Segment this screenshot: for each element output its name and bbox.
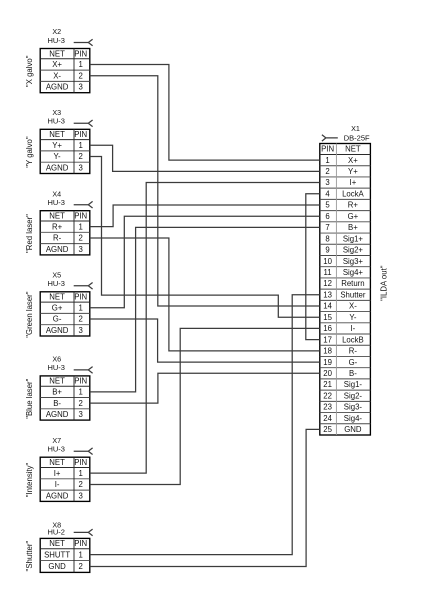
svg-text:19: 19 <box>323 358 332 367</box>
svg-text:B-: B- <box>349 369 357 378</box>
X1 pin 3: net I+ <box>325 178 356 187</box>
net-group label &quot;Blue laser&quot; for X6 <box>25 378 34 418</box>
connector X1 column headers PIN / NET <box>321 145 361 154</box>
svg-text:G+: G+ <box>52 303 63 312</box>
svg-text:PIN: PIN <box>74 130 87 139</box>
connector X8 (HU-2) reference designator <box>52 520 61 529</box>
svg-text:Sig4+: Sig4+ <box>343 268 364 277</box>
svg-text:2: 2 <box>79 315 83 324</box>
connector X7 column headers NET / PIN <box>49 458 87 467</box>
X1 pin 19: net G- <box>323 358 357 367</box>
svg-text:HU-3: HU-3 <box>47 363 65 372</box>
svg-text:16: 16 <box>323 324 332 333</box>
svg-text:HU-3: HU-3 <box>47 117 65 126</box>
svg-text:Shutter: Shutter <box>340 290 366 299</box>
svg-text:1: 1 <box>325 156 329 165</box>
wire net G- : X5 pin 2 to X1 pin 19 <box>90 319 320 362</box>
svg-text:3: 3 <box>325 178 329 187</box>
svg-text:2: 2 <box>79 480 83 489</box>
svg-text:PIN: PIN <box>74 49 87 58</box>
connector X1 type label DB-25F <box>344 134 370 143</box>
svg-text:"ILDA out": "ILDA out" <box>379 265 388 301</box>
svg-text:2: 2 <box>79 152 83 161</box>
svg-text:AGND: AGND <box>46 326 69 335</box>
X1 pin 18: net R- <box>323 347 357 356</box>
svg-text:R+: R+ <box>52 222 63 231</box>
wire net R+ : X4 pin 1 to X1 pin 5 <box>90 205 320 227</box>
wire net G+ : X5 pin 1 to X1 pin 6 <box>90 216 320 308</box>
connector X7 type label HU-3 <box>47 444 65 453</box>
connector X2 table frame <box>40 49 90 93</box>
X1 pin 12: net Return <box>323 279 364 288</box>
wire net GND : X8 pin 2 to X1 pin 25 <box>90 429 320 566</box>
X8 pin 1: net SHUTT <box>44 550 83 559</box>
connector X4 pin-header symbol <box>74 201 93 208</box>
connector X4 column headers NET / PIN <box>49 212 87 221</box>
X4 pin 2: net R- <box>53 234 83 243</box>
X1 pin 6: net G+ <box>325 212 358 221</box>
X1 pin 16: net I- <box>323 324 355 333</box>
svg-text:"Green laser": "Green laser" <box>25 291 34 338</box>
net-group label &quot;Shutter&quot; for X8 <box>25 541 34 572</box>
svg-text:Sig3+: Sig3+ <box>343 257 364 266</box>
connector X8 type label HU-2 <box>47 528 65 537</box>
X1 pin 1: net X+ <box>325 156 358 165</box>
svg-text:Y-: Y- <box>54 152 61 161</box>
net-group label &quot;X galvo&quot; for X2 <box>25 55 34 87</box>
connector X8 column headers NET / PIN <box>49 539 87 548</box>
svg-text:G-: G- <box>53 315 62 324</box>
wire net Lock : X1 pin 4 to X1 pin 17 <box>306 194 320 340</box>
connector X2 (HU-3) reference designator <box>52 27 61 36</box>
X1 pin 21: net Sig1- <box>323 380 362 389</box>
svg-text:17: 17 <box>323 335 332 344</box>
svg-text:LockB: LockB <box>342 335 364 344</box>
X1 pin 23: net Sig3- <box>323 403 362 412</box>
X1 pin 4: net LockA <box>325 189 364 198</box>
svg-text:HU-3: HU-3 <box>47 444 65 453</box>
svg-text:B-: B- <box>53 399 61 408</box>
connector X2 type label HU-3 <box>47 36 65 45</box>
X5 pin 2: net G- <box>53 315 83 324</box>
svg-text:23: 23 <box>323 403 332 412</box>
svg-text:24: 24 <box>323 414 332 423</box>
svg-text:1: 1 <box>79 469 83 478</box>
net-group label &quot;Y galvo&quot; for X3 <box>25 136 34 168</box>
net-group label &quot;Intensity&quot; for X7 <box>25 462 34 497</box>
svg-text:PIN: PIN <box>74 458 87 467</box>
svg-text:GND: GND <box>48 562 66 571</box>
connector X5 (HU-3) reference designator <box>52 270 61 279</box>
connector X1 table frame <box>320 144 371 436</box>
wire net B+ : X6 pin 1 to X1 pin 7 <box>90 227 320 391</box>
svg-text:12: 12 <box>323 279 332 288</box>
svg-text:NET: NET <box>49 539 65 548</box>
X1 pin 22: net Sig2- <box>323 391 362 400</box>
svg-text:SHUTT: SHUTT <box>44 550 70 559</box>
svg-text:2: 2 <box>79 234 83 243</box>
connector X3 pin-header symbol <box>74 120 93 127</box>
svg-text:PIN: PIN <box>74 539 87 548</box>
wire net X- : X2 pin 2 to X1 pin 14 <box>90 76 320 306</box>
connector X1 pin-header symbol <box>322 135 338 141</box>
connector X4 table frame <box>40 211 90 255</box>
svg-text:I-: I- <box>55 480 60 489</box>
svg-text:NET: NET <box>49 212 65 221</box>
svg-text:NET: NET <box>345 145 361 154</box>
svg-text:Sig1+: Sig1+ <box>343 234 364 243</box>
svg-text:"X galvo": "X galvo" <box>25 55 34 87</box>
connector X6 pin-header symbol <box>74 367 93 374</box>
svg-text:Sig1-: Sig1- <box>344 380 363 389</box>
wire net Y- : X3 pin 2 to X1 pin 15 <box>90 157 320 318</box>
X1 pin 9: net Sig2+ <box>325 246 363 255</box>
svg-text:PIN: PIN <box>74 293 87 302</box>
connector X5 type label HU-3 <box>47 279 65 288</box>
net-group label &quot;Green laser&quot; for X5 <box>25 291 34 338</box>
connector X2 pin-header symbol <box>74 39 93 46</box>
svg-text:"Red laser": "Red laser" <box>25 214 34 253</box>
wire net Y+ : X3 pin 1 to X1 pin 2 <box>90 145 320 171</box>
svg-text:Y+: Y+ <box>52 141 62 150</box>
X1 pin 8: net Sig1+ <box>325 234 363 243</box>
svg-text:I+: I+ <box>54 469 61 478</box>
connector X3 type label HU-3 <box>47 117 65 126</box>
svg-text:R+: R+ <box>348 201 359 210</box>
svg-text:3: 3 <box>79 410 83 419</box>
svg-text:2: 2 <box>79 71 83 80</box>
svg-text:NET: NET <box>49 458 65 467</box>
svg-text:1: 1 <box>79 141 83 150</box>
svg-text:1: 1 <box>79 222 83 231</box>
wire net I- : X7 pin 2 to X1 pin 16 <box>90 328 320 484</box>
svg-text:DB-25F: DB-25F <box>344 134 370 143</box>
X2 pin 3: net AGND <box>46 83 83 92</box>
svg-text:GND: GND <box>344 425 362 434</box>
X1 pin 24: net Sig4- <box>323 414 362 423</box>
svg-text:PIN: PIN <box>74 377 87 386</box>
svg-text:11: 11 <box>324 268 332 277</box>
connector X6 column headers NET / PIN <box>49 377 87 386</box>
X1 pin 25: net GND <box>323 425 362 434</box>
svg-text:AGND: AGND <box>46 245 69 254</box>
svg-text:8: 8 <box>325 234 329 243</box>
connector X1 reference designator <box>351 124 360 133</box>
svg-text:3: 3 <box>79 245 83 254</box>
svg-text:PIN: PIN <box>74 212 87 221</box>
svg-text:HU-3: HU-3 <box>47 198 65 207</box>
svg-text:9: 9 <box>325 246 329 255</box>
X1 pin 13: net Shutter <box>323 290 366 299</box>
X6 pin 1: net B+ <box>52 388 83 397</box>
svg-text:I-: I- <box>351 324 356 333</box>
svg-text:AGND: AGND <box>46 491 69 500</box>
connector X5 column headers NET / PIN <box>49 293 87 302</box>
svg-text:14: 14 <box>323 302 332 311</box>
svg-text:3: 3 <box>79 83 83 92</box>
svg-text:2: 2 <box>325 167 329 176</box>
connector X6 (HU-3) reference designator <box>52 355 61 364</box>
svg-text:18: 18 <box>323 347 332 356</box>
svg-text:2: 2 <box>79 562 83 571</box>
X5 pin 1: net G+ <box>52 303 83 312</box>
wire net B- : X6 pin 2 to X1 pin 20 <box>90 373 320 403</box>
connector X5 pin-header symbol <box>74 283 93 290</box>
svg-text:LockA: LockA <box>342 189 364 198</box>
X1 pin 11: net Sig4+ <box>324 268 364 277</box>
connector X4 type label HU-3 <box>47 198 65 207</box>
svg-text:HU-3: HU-3 <box>47 36 65 45</box>
svg-text:Y+: Y+ <box>348 167 358 176</box>
X4 pin 1: net R+ <box>52 222 83 231</box>
connector X5 table frame <box>40 292 90 336</box>
X3 pin 2: net Y- <box>54 152 83 161</box>
svg-text:HU-2: HU-2 <box>47 528 65 537</box>
X1 pin 17: net LockB <box>323 335 363 344</box>
svg-text:2: 2 <box>79 399 83 408</box>
svg-text:22: 22 <box>323 391 332 400</box>
svg-text:X+: X+ <box>52 60 62 69</box>
connector X8 pin-header symbol <box>74 529 93 536</box>
svg-text:25: 25 <box>323 425 332 434</box>
svg-text:R-: R- <box>349 347 358 356</box>
connector X3 column headers NET / PIN <box>49 130 87 139</box>
svg-text:7: 7 <box>325 223 329 232</box>
X3 pin 1: net Y+ <box>52 141 83 150</box>
svg-text:NET: NET <box>49 130 65 139</box>
svg-text:"Intensity": "Intensity" <box>25 462 34 497</box>
net-group label &quot;Red laser&quot; for X4 <box>25 214 34 253</box>
X1 pin 20: net B- <box>323 369 357 378</box>
connector X7 (HU-3) reference designator <box>52 436 61 445</box>
svg-text:PIN: PIN <box>321 145 334 154</box>
svg-text:20: 20 <box>323 369 332 378</box>
svg-text:Sig3-: Sig3- <box>344 403 363 412</box>
wire net R- : X4 pin 2 to X1 pin 18 <box>90 238 320 351</box>
svg-text:NET: NET <box>49 293 65 302</box>
connector X7 table frame <box>40 457 90 501</box>
connector X4 (HU-3) reference designator <box>52 189 61 198</box>
X1 pin 14: net X- <box>323 302 357 311</box>
svg-text:10: 10 <box>323 257 332 266</box>
X7 pin 3: net AGND <box>46 491 83 500</box>
X8 pin 2: net GND <box>48 562 82 571</box>
connector X2 column headers NET / PIN <box>49 49 87 58</box>
svg-text:Sig2-: Sig2- <box>344 391 363 400</box>
connector X6 type label HU-3 <box>47 363 65 372</box>
svg-text:X-: X- <box>349 302 357 311</box>
X2 pin 2: net X- <box>53 71 83 80</box>
wire net I+ : X7 pin 1 to X1 pin 3 <box>90 183 320 474</box>
svg-text:1: 1 <box>79 303 83 312</box>
net-group label &quot;ILDA out&quot; for X1 <box>379 265 388 301</box>
connector X8 table frame <box>40 538 90 572</box>
svg-text:X1: X1 <box>351 124 360 133</box>
X2 pin 1: net X+ <box>52 60 83 69</box>
connector X7 pin-header symbol <box>74 448 93 455</box>
svg-text:1: 1 <box>79 388 83 397</box>
X6 pin 2: net B- <box>53 399 83 408</box>
svg-text:AGND: AGND <box>46 164 69 173</box>
X7 pin 1: net I+ <box>54 469 83 478</box>
connector X3 (HU-3) reference designator <box>52 108 61 117</box>
svg-text:5: 5 <box>325 201 330 210</box>
svg-text:I+: I+ <box>350 178 357 187</box>
svg-text:"Shutter": "Shutter" <box>25 541 34 572</box>
svg-text:"Blue laser": "Blue laser" <box>25 378 34 418</box>
svg-text:AGND: AGND <box>46 83 69 92</box>
X4 pin 3: net AGND <box>46 245 83 254</box>
svg-text:3: 3 <box>79 326 83 335</box>
svg-text:NET: NET <box>49 377 65 386</box>
connector X6 table frame <box>40 376 90 420</box>
X1 pin 10: net Sig3+ <box>323 257 363 266</box>
svg-text:X+: X+ <box>348 156 358 165</box>
svg-text:1: 1 <box>79 60 83 69</box>
X5 pin 3: net AGND <box>46 326 83 335</box>
svg-text:Sig4-: Sig4- <box>344 414 363 423</box>
X1 pin 2: net Y+ <box>325 167 358 176</box>
X1 pin 5: net R+ <box>325 201 358 210</box>
wire net Shutter : X8 pin 1 to X1 pin 13 <box>90 295 320 555</box>
svg-text:NET: NET <box>49 49 65 58</box>
X6 pin 3: net AGND <box>46 410 83 419</box>
svg-text:AGND: AGND <box>46 410 69 419</box>
svg-text:15: 15 <box>323 313 332 322</box>
svg-text:Return: Return <box>341 279 364 288</box>
svg-text:21: 21 <box>323 380 332 389</box>
svg-text:1: 1 <box>79 550 83 559</box>
svg-text:4: 4 <box>325 189 330 198</box>
svg-text:3: 3 <box>79 491 83 500</box>
svg-text:Sig2+: Sig2+ <box>343 246 364 255</box>
svg-text:Y-: Y- <box>349 313 356 322</box>
svg-text:R-: R- <box>53 234 62 243</box>
svg-text:B+: B+ <box>348 223 358 232</box>
wire net X+ : X2 pin 1 to X1 pin 1 <box>90 64 320 160</box>
svg-text:6: 6 <box>325 212 329 221</box>
svg-text:B+: B+ <box>52 388 62 397</box>
X1 pin 7: net B+ <box>325 223 358 232</box>
X7 pin 2: net I- <box>55 480 83 489</box>
connector X3 table frame <box>40 129 90 173</box>
X3 pin 3: net AGND <box>46 164 83 173</box>
X1 pin 15: net Y- <box>323 313 357 322</box>
svg-text:"Y galvo": "Y galvo" <box>25 136 34 168</box>
svg-text:3: 3 <box>79 164 83 173</box>
svg-text:X-: X- <box>53 71 61 80</box>
svg-text:G+: G+ <box>348 212 359 221</box>
svg-text:HU-3: HU-3 <box>47 279 65 288</box>
svg-text:G-: G- <box>349 358 358 367</box>
svg-text:13: 13 <box>323 290 332 299</box>
